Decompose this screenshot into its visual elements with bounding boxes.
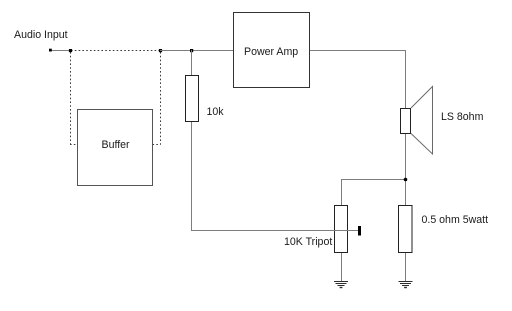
ground: below trimpot xyxy=(334,282,348,288)
block: Power Amp box xyxy=(234,13,310,88)
wire: dotted drop from buffer output (right) xyxy=(153,52,161,145)
wire: drop to resistor R1 top xyxy=(191,50,193,75)
node: audio input terminal dot xyxy=(49,49,52,52)
wire: trimpot bottom to ground xyxy=(341,253,343,282)
label: 10K Tripot (VR1 value) xyxy=(284,236,332,248)
ground: below sense resistor xyxy=(399,282,413,288)
wire: dotted drop to buffer input (left) xyxy=(70,52,78,145)
node: junction dot speaker/sense net xyxy=(404,178,408,182)
wire: sense resistor bottom to ground xyxy=(405,253,407,282)
label: 0.5 ohm 5watt (R2 value) xyxy=(422,214,489,226)
wire: speaker net vertical drop xyxy=(405,50,407,205)
label: Power Amp xyxy=(244,46,298,58)
wire: power amp output to speaker net xyxy=(309,50,406,52)
wire: dotted signal run to buffer tap (node B) xyxy=(71,50,160,52)
pin: trimpot wiper terminal bar xyxy=(358,226,361,236)
label: Buffer xyxy=(102,139,130,151)
block: Buffer box xyxy=(78,110,153,186)
wire: node B to power amp input xyxy=(160,50,233,52)
wire: feedback run to trimpot wiper xyxy=(191,230,358,232)
node: junction dot at buffer right tap xyxy=(159,49,162,52)
potentiometer VR1 10K tripot body xyxy=(335,206,348,253)
node: junction dot at buffer left tap xyxy=(69,49,72,52)
wire: resistor R1 bottom down to wiper level xyxy=(191,122,193,231)
speaker LS1: cone xyxy=(411,87,433,155)
resistor R1 10k body xyxy=(186,76,199,122)
resistor R2 0.5 ohm body xyxy=(399,206,413,253)
label: Audio Input xyxy=(14,29,68,41)
label: 10k (R1 value) xyxy=(207,106,224,118)
speaker LS1: voice coil rectangle xyxy=(401,109,411,134)
wire: audio input lead segment xyxy=(49,50,71,52)
node: junction dot at R1 tap xyxy=(190,49,193,52)
wire: trimpot top up and over to junction xyxy=(341,180,406,206)
label: LS 8ohm (speaker value) xyxy=(441,111,483,123)
